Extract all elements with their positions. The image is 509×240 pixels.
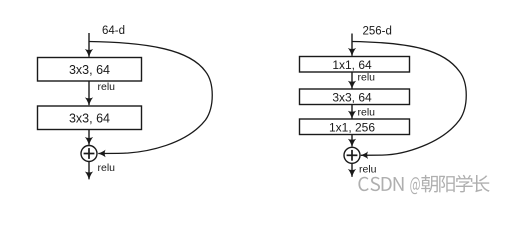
wire arrow from 1x1,256 to adder [351,135,353,147]
svg-text:relu: relu [359,164,377,176]
adder circle with plus (right) [344,147,360,163]
watermark glyph at [410,177,419,194]
wire skip-connection curve (left) [89,42,212,154]
watermark glyph yang [439,176,455,193]
svg-text:1x1, 256: 1x1, 256 [329,120,375,134]
svg-text:3x3, 64: 3x3, 64 [332,90,372,104]
watermark glyph chao [421,175,438,193]
watermark glyph xue [456,175,473,193]
wire skip-connection curve (right) [352,42,466,156]
wire output arrow (left) [88,162,90,180]
wire arrow 3x3,64 to 1x1,256 [351,105,353,119]
svg-text:1x1, 64: 1x1, 64 [332,58,372,72]
svg-text:relu: relu [98,81,116,93]
adder circle with plus (left) [81,146,97,162]
svg-text:256-d: 256-d [363,26,392,38]
conv box 3x3,64 (second) [38,106,142,130]
wire arrow from second box to adder [88,130,90,145]
watermark glyph D [382,177,392,191]
wire input arrow into 1x1,64 box [351,34,353,56]
svg-text:relu: relu [98,162,116,174]
watermark glyph zhang [472,175,489,192]
svg-text:64-d: 64-d [102,25,125,37]
wire arrow between conv boxes [88,81,90,105]
watermark glyph S [370,177,380,191]
svg-text:relu: relu [358,106,376,118]
watermark CSDN @chaoyangxuezhang [358,175,489,194]
svg-text:3x3, 64: 3x3, 64 [69,63,110,77]
wire arrow 1x1,64 to 3x3,64 [351,72,353,89]
conv box 3x3,64 (right) [300,89,410,105]
svg-text:3x3, 64: 3x3, 64 [69,111,110,125]
conv box 1x1,64 [300,57,410,73]
wire output arrow (right) [351,163,353,177]
watermark glyph C [358,177,368,191]
conv box 1x1,256 [300,119,410,135]
wire input arrow into first conv box [88,33,90,57]
svg-text:relu: relu [358,72,376,84]
watermark glyph N [394,177,404,191]
conv box 3x3,64 (first) [38,58,142,82]
